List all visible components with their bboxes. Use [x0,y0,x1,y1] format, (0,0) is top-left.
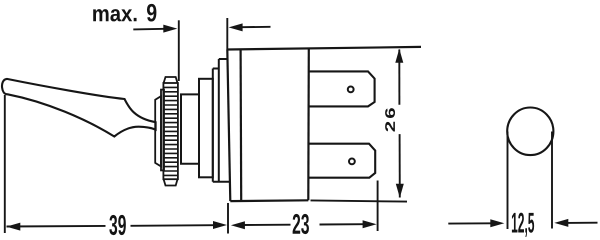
dim line 26 lower segment [399,134,401,197]
terminal lower (spade) [309,144,375,178]
dim line 12,5 right tail [567,222,598,224]
step B [199,79,213,178]
dim line 12,5 left tail [448,222,492,224]
nut bottom cap [164,179,178,185]
arrowhead max9 left (points right) [163,25,177,33]
max9 right extension line [226,18,228,50]
arrowhead 23 left (points left) [231,221,245,229]
label 9 [147,4,156,22]
arrowhead 26 bottom (points down) [396,184,404,198]
threaded shaft [181,94,199,163]
arrowhead 12,5 left (points right) [490,219,504,227]
terminal upper (spade) [309,71,375,106]
dim line 39 left segment [7,225,106,228]
dim line 39 right segment [131,224,214,227]
max9 left extension line [178,20,180,81]
body right edge [307,48,310,200]
terminal lower hole [349,159,355,165]
body top edge + 26 top extension line [227,47,421,50]
12,5 left extension line [507,132,509,230]
knurl ridges [163,87,178,175]
39/23 shared extension line [227,203,229,234]
knurled nut body [163,83,178,179]
dim line max9 left [133,28,165,31]
arrowhead 39 right (points right) [213,221,227,229]
23 right extension line [377,181,379,232]
dim line 26 upper segment [398,50,400,105]
toggle lever (paddle) [2,79,156,137]
arrowhead 39 left (points left) [6,223,20,231]
arrowhead 12,5 right (points left) [554,219,568,227]
arrowhead 23 right (points right) [363,220,377,228]
dim line max9 right [241,26,271,28]
body bottom edge [230,199,308,202]
nut left rim strip [161,90,164,171]
arrowhead max9 right (points left) [229,23,243,31]
step C [213,69,219,182]
dim line 23 right segment [320,223,365,225]
label 12,5 [512,213,534,237]
12,5 right extension line [551,132,553,229]
label max. [93,9,136,21]
label 26 (rotated) [385,108,395,131]
label 23 [293,214,309,234]
step bottom ledge [213,181,230,183]
front view circle [507,108,553,156]
label 39 [109,215,125,235]
lever collar (trapezoid washer) [155,96,161,166]
dim line 23 left segment [243,224,291,226]
nut top cap [164,77,178,83]
step D [219,59,228,182]
26 bottom extension line [311,200,408,201]
39 left extension line (from lever tip) [4,95,6,233]
body inner left line [240,49,243,201]
arrowhead 26 top (points up) [395,49,403,63]
switch body [227,50,230,202]
terminal upper hole [348,87,354,93]
